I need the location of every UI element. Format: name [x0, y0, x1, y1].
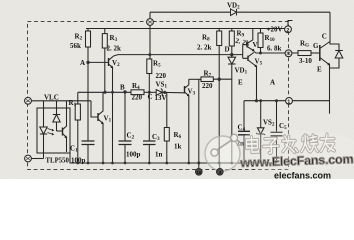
- terminal 6 on top border: [147, 19, 154, 26]
- capacitor C5: [271, 101, 283, 163]
- dian: [246, 137, 258, 153]
- LED inside box: [40, 101, 54, 159]
- optocoupler TLP550 box: [37, 108, 70, 153]
- fa: [282, 136, 297, 153]
- wire from T6 down to R5: [149, 30, 151, 59]
- capacitor C4 2n: [238, 101, 250, 163]
- V3 collector line riser to bottom terminal: [198, 79, 200, 169]
- resistor R9 2.2k: [229, 29, 234, 55]
- resistor R2 56k: [86, 29, 91, 48]
- svg-text:elecfans.com: elecfans.com: [274, 171, 331, 180]
- watermark chinese chars (hand-drawn): [246, 134, 334, 154]
- capacitor C3: [143, 92, 156, 163]
- phototransistor inside box: [57, 101, 67, 152]
- output transistor IGBT: [320, 12, 330, 113]
- node A: [86, 61, 89, 64]
- diode VD2: [231, 9, 237, 16]
- bottom common rail: [70, 153, 277, 163]
- photodiode inside box: [53, 101, 60, 131]
- emitter return line: [244, 100, 330, 102]
- capacitor C1 on A line: [82, 92, 95, 163]
- resistor R4 220: [131, 90, 144, 95]
- resistor R3 2.2k: [102, 29, 107, 93]
- VLC input wire: [31, 100, 91, 102]
- transistor V4: [247, 29, 254, 51]
- totem pole base bracket: [243, 45, 248, 59]
- terminal 3: [285, 50, 292, 57]
- dashed module border: [28, 22, 289, 170]
- capacitor C2: [119, 92, 132, 163]
- wire: A vertical from R2 bottom down to C1: [87, 47, 89, 92]
- top collector wire: [150, 12, 330, 30]
- junction dots on B rail: [103, 91, 106, 94]
- zi: [263, 138, 278, 153]
- terminal 1: [286, 98, 293, 105]
- transistor V2: [88, 56, 114, 163]
- resistor R5 220: [147, 59, 152, 92]
- freewheel diode across C-E: [330, 42, 343, 69]
- shao: [301, 135, 318, 153]
- svg-text:4: 4: [219, 170, 222, 175]
- zener VS2: [256, 101, 265, 163]
- transistor V5: [248, 53, 257, 101]
- wire from lower-left terminal: [31, 158, 43, 160]
- resistor R10 6.8k: [258, 29, 263, 54]
- transistor V3: [185, 79, 189, 163]
- desat line node D rail: [114, 55, 243, 56]
- terminal 2: [288, 21, 293, 27]
- svg-text:16: 16: [196, 170, 202, 175]
- +20V rail wire: [86, 28, 288, 30]
- transistor V1: [91, 92, 103, 163]
- B node rail: [78, 91, 185, 94]
- gate resistor RG 3-10: [298, 51, 320, 56]
- resistor R6 1k: [164, 92, 169, 163]
- resistor R8 2.2k: [217, 29, 222, 170]
- resistor R7 220: [189, 77, 232, 82]
- watermark: [0, 0, 354, 179]
- terminal VLC-: [25, 155, 32, 162]
- resistor R1: [75, 92, 80, 163]
- gate output line: [254, 52, 298, 54]
- terminal VLC+: [25, 97, 32, 104]
- you: [320, 134, 334, 151]
- diode VD1: [228, 55, 236, 163]
